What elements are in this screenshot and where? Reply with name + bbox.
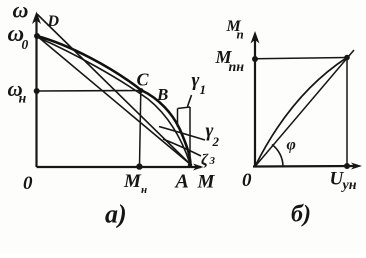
wire: horizontal line Mpn to corner (255, 58, 347, 59)
svg-text:M: M (123, 171, 142, 192)
svg-text:φ: φ (287, 137, 296, 154)
wire: straight line O to corner with overshoot (255, 50, 354, 167)
node: omega axis arrowhead (32, 12, 41, 25)
svg-text:а): а) (105, 200, 127, 229)
wire: leader from r3 label into fan (163, 139, 201, 156)
node: Uun point on x axis (344, 163, 350, 169)
svg-text:0: 0 (242, 170, 252, 191)
svg-text:γ: γ (192, 70, 200, 91)
wire: right graph x axis (253, 165, 358, 168)
wire: bracket left leg down to curve (177, 109, 179, 128)
wire: straight chord line omega0 to A (37, 36, 190, 164)
svg-text:б): б) (291, 202, 311, 228)
wire: leader from r2 label into fan (159, 127, 205, 141)
node: A point on axis (188, 163, 192, 167)
svg-text:0: 0 (22, 37, 29, 52)
svg-text:н: н (19, 92, 27, 107)
svg-text:0: 0 (23, 173, 33, 194)
node: Mn point on axis (136, 163, 142, 169)
node: omega-n point on axis (34, 88, 40, 94)
svg-text:ζ: ζ (201, 152, 209, 169)
curve: thick natural characteristic D-C-B-A (37, 36, 191, 164)
wire: right graph y axis (254, 37, 256, 167)
node: omega0 point on axis (34, 33, 40, 39)
svg-text:B: B (156, 85, 168, 104)
svg-text:2: 2 (212, 134, 220, 149)
svg-text:ω: ω (13, 0, 29, 23)
svg-text:C: C (137, 70, 150, 90)
svg-text:3: 3 (209, 155, 216, 167)
wire: left graph M axis (horizontal) (37, 166, 202, 168)
svg-text:1: 1 (200, 82, 207, 97)
node: top right corner point (344, 55, 350, 61)
curve: second (double) characteristic below the thick one (37, 37, 190, 164)
svg-text:н: н (141, 184, 147, 196)
wire: Mn vertical line up to C (140, 91, 141, 167)
node: right x axis arrowhead (351, 163, 362, 170)
wire: bracket top bar (178, 107, 191, 109)
wire: left graph omega axis (vertical) (35, 17, 37, 167)
wire: omega-n horizontal level line (37, 90, 141, 93)
wire: leader from r1 label to bracket (188, 95, 192, 107)
wire: straight line from D (axis top) to A (37, 14, 190, 164)
wire: vertical line at Uun (346, 58, 348, 167)
svg-text:M: M (197, 172, 216, 193)
svg-text:ун: ун (341, 178, 357, 193)
svg-text:пн: пн (229, 60, 245, 75)
node: C junction point (139, 88, 144, 93)
svg-text:A: A (174, 171, 189, 193)
curve: phi angle arc (272, 145, 283, 167)
node: Mpn point on y axis (252, 56, 258, 62)
node: M axis arrowhead (193, 164, 204, 171)
wire: vertical line above A up to bracket (189, 107, 191, 165)
node: right y axis arrowhead (251, 31, 260, 44)
svg-text:D: D (47, 13, 60, 30)
svg-text:п: п (237, 27, 244, 42)
curve: bowed line O to corner (255, 58, 347, 167)
